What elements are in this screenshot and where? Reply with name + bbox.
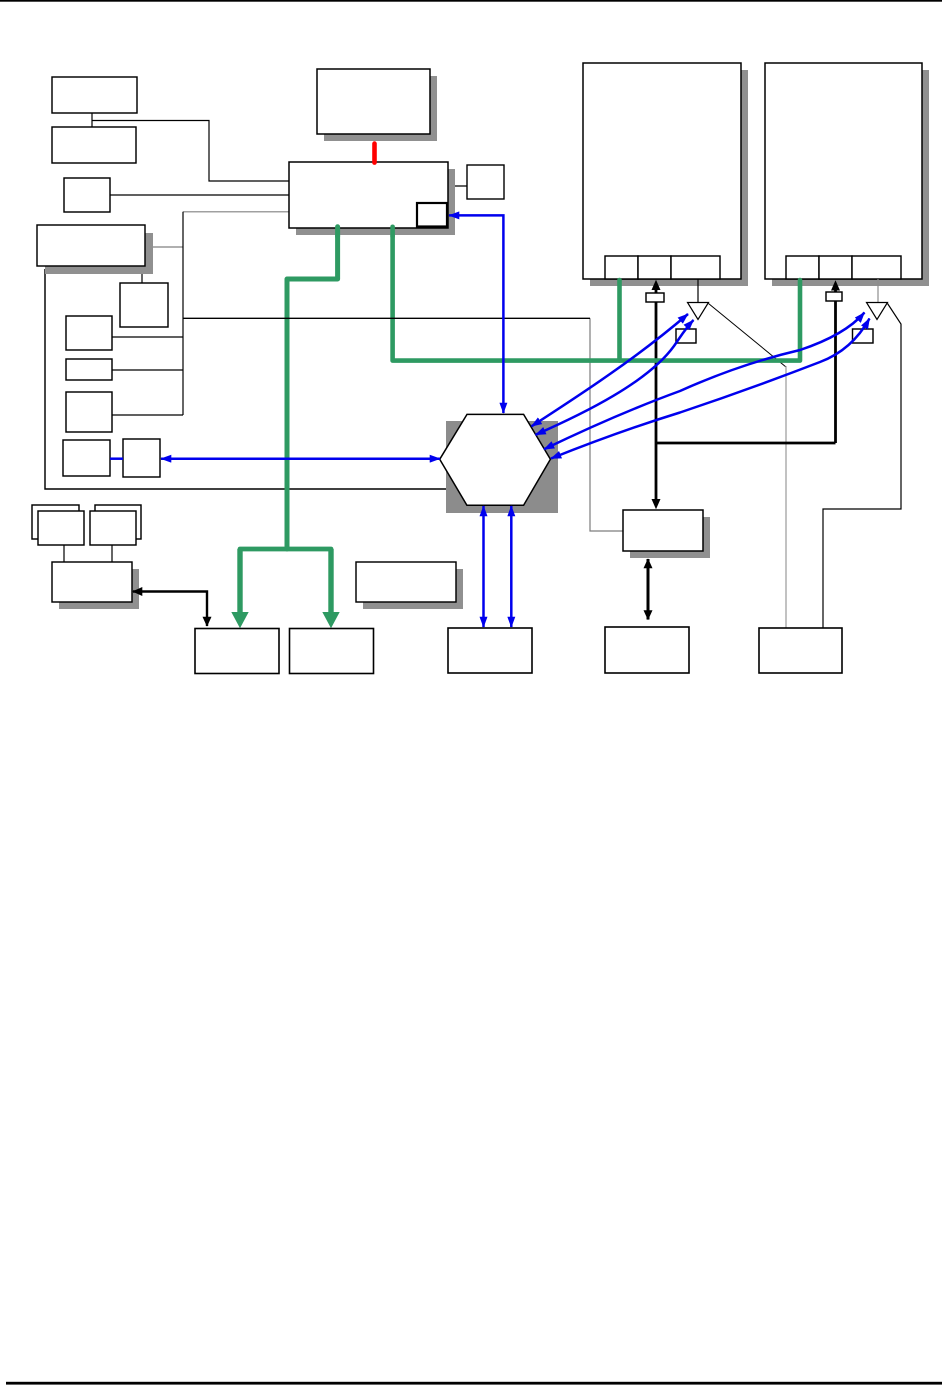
tiny rect on bus near rect1 xyxy=(646,293,664,302)
green branch up to rect1 small1 xyxy=(617,280,622,361)
wire box8 branch xyxy=(112,414,183,416)
box BC xyxy=(448,628,532,673)
blue curve C4 hexagon to triangle U2 via tag box xyxy=(551,319,870,459)
wire gray vertical to box BR xyxy=(785,366,787,628)
hexagon arbiter xyxy=(440,414,551,505)
green connector G2 overlay at central box shadow xyxy=(390,227,395,237)
green drop arrow into box BL2 xyxy=(328,549,333,613)
stacked pair 2 front xyxy=(90,511,136,545)
blue curve C1 hexagon to triangle U1 xyxy=(532,314,689,426)
wire box7 branch xyxy=(112,369,183,371)
arrowhead up into rect2 small2 xyxy=(831,280,840,290)
tall rect R2 xyxy=(765,63,922,279)
wire gray from long bus down to box SR xyxy=(590,318,623,531)
shadow of tall rect R1 xyxy=(590,70,748,286)
wire box6 branch xyxy=(112,336,183,338)
wire diagonal from triangle U1 xyxy=(709,304,787,368)
arrowhead up into rect1 small2 xyxy=(652,280,661,290)
box B1 top-left xyxy=(52,77,137,113)
R1 small3 xyxy=(671,256,720,279)
black arrow from BL1 to box B12 xyxy=(133,592,207,627)
wire box4 to box5 xyxy=(141,266,143,283)
shadow of top box xyxy=(324,76,437,141)
blue L arrow inner box / hexagon top xyxy=(449,215,503,413)
R2 small3 xyxy=(852,256,901,279)
box B7 xyxy=(66,359,112,380)
box B8 xyxy=(66,392,112,432)
stacked pair 1 front xyxy=(38,511,84,545)
central box xyxy=(289,162,448,228)
stacked pair 2 back xyxy=(95,505,141,539)
R1 small2 xyxy=(638,256,671,279)
shadow of box B4 xyxy=(45,233,153,274)
wire long horizontal from bus x183 to x590 xyxy=(183,317,590,319)
red connector top box to central box xyxy=(372,144,377,163)
blue curve C2 hexagon to triangle U1 via tag box xyxy=(536,320,694,435)
box B12 xyxy=(52,562,132,602)
green connector G1 overlay at central box shadow xyxy=(335,227,340,237)
box BR xyxy=(759,628,842,673)
blue curve C3 hexagon to triangle U2 xyxy=(544,313,865,450)
box B5 xyxy=(120,283,168,327)
black bus: rect1 small2 down, branch to rect2 small2, down to box SR xyxy=(656,289,836,502)
box B2 xyxy=(52,127,136,163)
shadow of box B12 xyxy=(59,569,139,609)
wire central box to small right box xyxy=(448,185,467,187)
green drop arrow into box BL1 xyxy=(237,549,242,613)
blue double arrow hexagon bottom to box BC left xyxy=(482,506,485,627)
inner box bottom-right of central box xyxy=(417,203,447,227)
wire stacked pair2 to box B12 xyxy=(111,545,113,562)
R1 small1 xyxy=(605,256,638,279)
tall rect R1 xyxy=(583,63,741,279)
green bar above BL boxes xyxy=(240,547,331,552)
page top rule xyxy=(0,0,942,2)
blue stub box9 to box10 xyxy=(110,457,123,460)
shadow of hexagon xyxy=(446,421,558,513)
shadow of box SR xyxy=(630,517,710,558)
blue double arrow box10 to hexagon xyxy=(161,457,440,460)
wire box4 to vertical bus xyxy=(145,246,183,248)
triangle U2 xyxy=(867,303,888,320)
box Mid xyxy=(356,562,456,602)
triangle U1 xyxy=(688,303,709,320)
box B10 xyxy=(123,439,160,477)
box top (U?) xyxy=(317,69,430,134)
box BM xyxy=(605,627,689,673)
wire vertical bus x=183 xyxy=(182,212,184,415)
box SR xyxy=(623,510,703,551)
wire from triangle U2 down to box BR xyxy=(823,304,901,629)
blue double arrow hexagon bottom to box BC right xyxy=(510,506,513,627)
wire container frame left and bottom xyxy=(45,269,446,489)
R2 small1 xyxy=(786,256,819,279)
black double arrow box SR to box BM xyxy=(647,559,650,620)
box BL1 xyxy=(195,629,279,674)
shadow of tall rect R2 xyxy=(772,70,929,286)
wire box1 to box2 with branch to central box xyxy=(92,113,289,181)
tiny rect on blue curve near triangle U2 xyxy=(853,329,874,343)
shadow of central box xyxy=(296,169,455,235)
shadow of box Mid xyxy=(363,569,463,609)
box B6 xyxy=(66,316,112,350)
box BL2 xyxy=(290,629,374,674)
arrowhead down into box SR xyxy=(652,499,661,509)
wire stacked pair1 to box B12 xyxy=(63,545,65,562)
page bottom rule xyxy=(6,1382,942,1385)
small box right of central box xyxy=(467,165,504,199)
box B4 xyxy=(37,225,145,266)
box B9 xyxy=(63,440,110,476)
R2 small2 xyxy=(819,256,852,279)
tiny rect on blue curve near triangle U1 xyxy=(676,329,696,343)
wire small3 of rect2 to triangle U2 xyxy=(877,279,879,303)
wire vertical bus to central box xyxy=(183,211,289,213)
tiny rect on bus near rect2 xyxy=(826,292,842,301)
wire small3 of rect1 to triangle U1 xyxy=(697,279,699,303)
stacked pair 1 back xyxy=(32,505,79,539)
green connector G1 from central box to bottom left arrows xyxy=(287,228,338,549)
green connector G2 from central box to rect1/rect2 small boxes xyxy=(393,228,800,361)
box B3 xyxy=(64,178,110,212)
wire box3 to central box xyxy=(110,194,289,196)
